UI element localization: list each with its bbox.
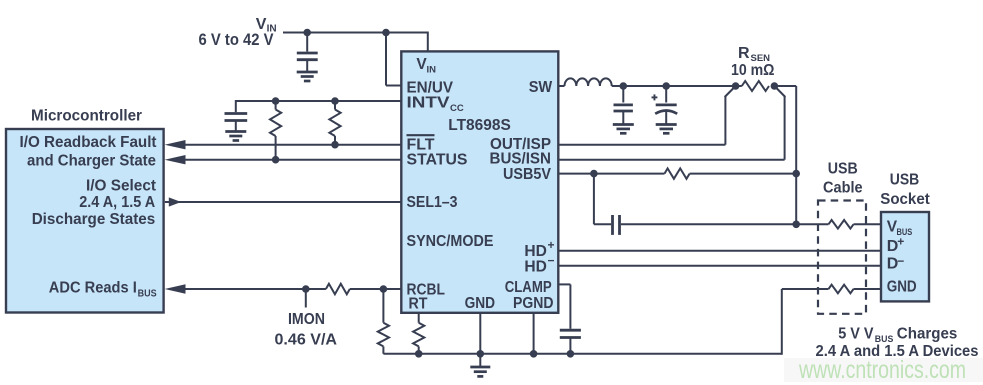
svg-text:−: −: [548, 254, 555, 268]
svg-text:PGND: PGND: [513, 295, 554, 312]
svg-text:CLAMP: CLAMP: [505, 279, 552, 296]
label USB Socket: [880, 172, 930, 208]
capacitor C1 input bypass: [297, 33, 318, 72]
wire HD- line: [558, 265, 881, 267]
capacitor C5 CLAMP: [558, 284, 581, 353]
junction SW-C4: [662, 82, 670, 90]
junction SW-C3: [620, 82, 628, 90]
wire VBUS branch: [594, 174, 611, 225]
svg-text:CC: CC: [450, 103, 464, 114]
svg-text:I/O Select: I/O Select: [86, 178, 156, 195]
label USB Cable: [823, 160, 863, 196]
svg-text:GND: GND: [465, 295, 496, 312]
node VIN label: [199, 16, 277, 49]
usb socket pin labels: [887, 219, 917, 296]
wire RCBL/IMON line: [185, 288, 401, 290]
resistor RSEN 10mohm: [742, 81, 769, 91]
svg-text:Microcontroller: Microcontroller: [31, 108, 142, 125]
wire STATUS line: [185, 159, 401, 161]
junction RSEN right: [771, 82, 779, 90]
svg-text:Charges: Charges: [897, 326, 958, 343]
wire USB5V line: [558, 173, 796, 175]
capacitor C2 INTVCC bypass: [225, 114, 248, 132]
junction USB5V-VBUS: [792, 170, 800, 178]
node IMON stub: [305, 289, 307, 308]
resistor cable GND: [829, 285, 854, 294]
wire ground rail: [383, 289, 828, 355]
wire VIN rail: [283, 32, 428, 34]
junction USB5V branch: [590, 170, 598, 178]
arrowhead SEL1-3 toward IC: [169, 197, 181, 206]
capacitor C6 series: [613, 215, 620, 235]
svg-text:Discharge States: Discharge States: [32, 211, 156, 228]
svg-text:10 mΩ: 10 mΩ: [731, 62, 775, 79]
inductor L1: [558, 78, 611, 86]
svg-text:−: −: [897, 254, 904, 268]
svg-text:+: +: [897, 234, 904, 248]
wire cable GND segment: [854, 288, 882, 290]
svg-text:and Charger State: and Charger State: [27, 153, 156, 170]
svg-text:LT8698S: LT8698S: [448, 117, 511, 134]
wire OUT/ISP kelvin: [558, 86, 735, 145]
svg-text:HD: HD: [524, 259, 547, 276]
junction VIN-C1: [303, 29, 311, 37]
svg-text:R: R: [738, 45, 750, 62]
wire PGND pin drop: [533, 313, 535, 354]
resistor R2 FLT pull-up: [329, 101, 340, 145]
usb socket box: [881, 212, 929, 301]
usb cable dashed box: [818, 201, 866, 314]
svg-text:USB: USB: [890, 172, 920, 189]
svg-text:6 V to 42 V: 6 V to 42 V: [199, 30, 275, 49]
wire VBUS line: [621, 223, 881, 225]
ground for C3: [613, 125, 634, 134]
wire INTVCC rail: [236, 100, 401, 112]
junction R2-FLT: [331, 141, 339, 149]
wire EN/UV branch: [386, 33, 401, 86]
label IMON: [275, 311, 338, 348]
capacitor C4 output bulk polarized: [652, 86, 678, 124]
junction R1-STATUS: [272, 156, 280, 164]
junction VIN-ENUV: [382, 29, 390, 37]
svg-text:IN: IN: [427, 64, 437, 75]
wire GND pin drop: [479, 313, 481, 367]
svg-text:ADC Reads I: ADC Reads I: [49, 280, 137, 297]
capacitor C3 output: [614, 86, 633, 124]
wire SEL1-3 line: [165, 201, 401, 203]
watermark background: [784, 358, 983, 382]
wire SW output rail: [612, 85, 742, 87]
svg-text:2.4 A, 1.5 A: 2.4 A, 1.5 A: [79, 194, 155, 211]
caption text: [816, 326, 979, 361]
junction rail-C5: [567, 350, 575, 358]
svg-text:Socket: Socket: [880, 191, 930, 208]
svg-text:SEL1–3: SEL1–3: [407, 194, 458, 211]
junction IMON node: [302, 285, 310, 293]
svg-text:GND: GND: [887, 278, 917, 295]
junction INTVCC-R2: [331, 97, 339, 105]
svg-text:BUS: BUS: [138, 288, 157, 299]
svg-text:STATUS: STATUS: [407, 152, 468, 169]
ground for C1: [297, 72, 318, 81]
arrowhead STATUS into microcontroller: [165, 155, 186, 164]
junction VBUS node: [792, 221, 800, 229]
wire RSEN to VBUS: [774, 86, 796, 224]
svg-text:Cable: Cable: [823, 180, 863, 197]
resistor R6 USB5V: [665, 168, 690, 178]
svg-text:IMON: IMON: [288, 311, 325, 328]
wire BUS/ISN kelvin: [558, 86, 785, 160]
resistor R1 STATUS pull-up: [270, 101, 281, 160]
wire VIN drop to IC VIN pin: [427, 32, 429, 53]
arrowhead FLT into microcontroller: [165, 140, 186, 149]
label RSEN: [731, 45, 775, 79]
microcontroller box: [6, 129, 164, 313]
junction INTVCC-R1: [272, 97, 280, 105]
resistor R3 IMON: [326, 284, 350, 294]
svg-text:I/O Readback Fault: I/O Readback Fault: [20, 134, 157, 151]
ground symbol main: [470, 367, 490, 376]
resistor R4 RCBL: [378, 289, 389, 354]
junction rail-RT: [415, 350, 423, 358]
junction rail-GND: [477, 350, 485, 358]
junction RSEN left: [732, 82, 740, 90]
op-amp U1 LT8698S box: [401, 51, 558, 312]
wire HD+ line: [558, 250, 881, 252]
microcontroller port labels: [20, 134, 157, 299]
IC pin labels: [407, 56, 555, 313]
watermark: [798, 356, 966, 384]
junction RCBL-R4: [380, 285, 388, 293]
svg-text:+: +: [548, 238, 555, 252]
ground for C4: [656, 125, 677, 134]
svg-text:RT: RT: [409, 296, 428, 313]
svg-text:SW: SW: [529, 79, 553, 96]
arrowhead IMON into microcontroller: [165, 284, 186, 293]
resistor R5 RT: [413, 313, 424, 354]
resistor cable VBUS: [829, 220, 854, 229]
svg-text:SYNC/MODE: SYNC/MODE: [407, 233, 494, 250]
ground for C2: [225, 132, 246, 141]
junction rail-PGND: [530, 350, 538, 358]
svg-text:USB5V: USB5V: [503, 166, 551, 183]
svg-text:0.46 V/A: 0.46 V/A: [275, 331, 338, 348]
wire FLT line: [185, 144, 401, 146]
microcontroller title: [31, 108, 142, 125]
svg-text:USB: USB: [828, 160, 858, 177]
svg-text:5 V V: 5 V V: [838, 326, 874, 343]
svg-text:INTV: INTV: [407, 95, 450, 112]
svg-text:HD: HD: [524, 243, 547, 260]
svg-text:www.cntronics.com: www.cntronics.com: [798, 356, 966, 384]
